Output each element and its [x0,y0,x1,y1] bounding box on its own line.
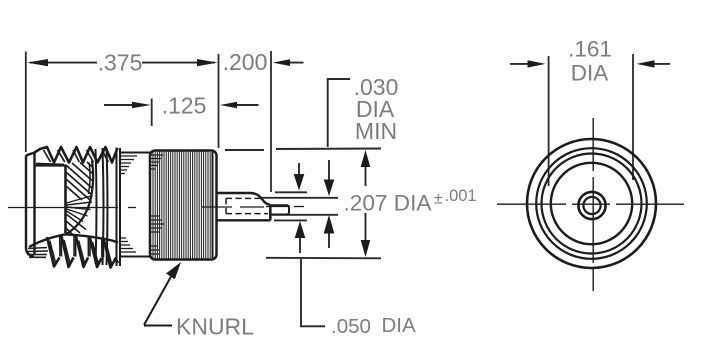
svg-text:DIA: DIA [382,314,417,337]
svg-text:KNURL: KNURL [176,314,254,340]
svg-text:.161: .161 [568,37,612,62]
foot shading [27,248,48,258]
collar ticks [120,156,137,252]
svg-text:.207 DIA: .207 DIA [344,191,433,216]
svg-text:.050: .050 [331,315,371,338]
knurl vertical lines [153,151,210,259]
svg-text:±: ± [434,191,443,208]
fan lines [67,196,93,222]
top thread zigzag [35,147,118,163]
bell (cone) curve [66,161,94,235]
svg-text:.125: .125 [162,93,207,119]
svg-text:DIA: DIA [571,61,609,86]
thread back band verticals [96,148,121,267]
knurl barrel [150,151,217,260]
face crosshairs [497,118,684,291]
bottom thread sweep line [29,234,118,247]
hidden dashes inside pin [226,198,268,213]
tooth flank doubles and connectors [50,236,112,264]
inner flank lines of top teeth [44,150,109,162]
pin / contact [217,193,290,220]
collar [120,153,150,257]
left face band [26,153,35,257]
svg-text:MIN: MIN [355,118,397,144]
funnel rectangle [35,165,66,234]
knurl left shading ticks [150,155,164,254]
lower hatch [66,214,86,236]
shoulder line under top threads [36,164,64,165]
center line [8,207,304,208]
svg-text:.375: .375 [98,50,143,76]
upper hatch [67,162,94,200]
svg-text:.200: .200 [223,49,268,75]
svg-text:.001: .001 [445,187,477,205]
bottom thread zigzag [47,236,118,268]
